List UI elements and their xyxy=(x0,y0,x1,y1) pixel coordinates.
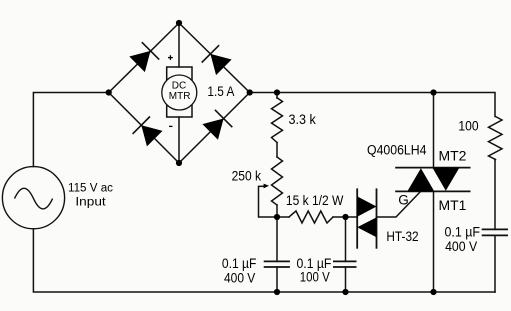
svg-text:0.1 µF: 0.1 µF xyxy=(222,256,257,271)
svg-text:100: 100 xyxy=(458,119,478,134)
svg-text:MT2: MT2 xyxy=(439,149,467,164)
svg-text:250 k: 250 k xyxy=(232,168,262,183)
svg-text:Q4006LH4: Q4006LH4 xyxy=(367,142,427,157)
svg-text:1.5 A: 1.5 A xyxy=(207,84,234,99)
svg-text:Input: Input xyxy=(75,196,106,208)
svg-text:3.3 k: 3.3 k xyxy=(289,112,317,127)
svg-text:MT1: MT1 xyxy=(439,198,467,213)
svg-text:400 V: 400 V xyxy=(445,239,477,254)
svg-text:100 V: 100 V xyxy=(300,270,330,285)
svg-text:15 k 1/2 W: 15 k 1/2 W xyxy=(286,193,344,208)
svg-text:115 V ac: 115 V ac xyxy=(68,183,113,195)
svg-text:G: G xyxy=(398,193,409,208)
svg-text:MTR: MTR xyxy=(169,91,191,102)
svg-text:0.1 µF: 0.1 µF xyxy=(445,225,481,240)
svg-text:HT-32: HT-32 xyxy=(386,229,418,244)
svg-text:DC: DC xyxy=(172,81,186,92)
svg-text:400 V: 400 V xyxy=(224,270,255,285)
